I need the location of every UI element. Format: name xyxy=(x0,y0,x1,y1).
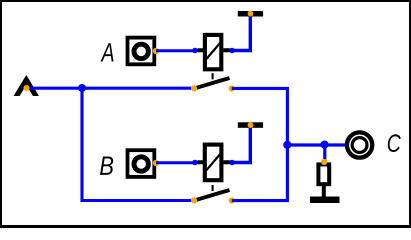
node: switch A left terminal xyxy=(191,85,197,91)
label C xyxy=(388,134,401,152)
wire: switch B to output node xyxy=(232,145,288,201)
supply bar A xyxy=(238,11,263,17)
node: orange terminal at input A xyxy=(153,48,159,54)
switch contact B blade xyxy=(194,190,230,201)
node: switch B right terminal xyxy=(229,197,235,203)
node: orange terminal at supply bar A xyxy=(248,11,254,17)
supply bar B xyxy=(238,122,263,128)
node: orange terminal at supply bar B xyxy=(248,122,254,128)
node: coil B right terminal xyxy=(229,160,235,166)
node: orange terminal at resistor top xyxy=(321,159,327,165)
wire: switch A to output node xyxy=(232,88,288,145)
node: switch B left terminal xyxy=(191,197,197,203)
node: orange terminal at input B xyxy=(153,160,159,166)
input A inner circle xyxy=(134,44,148,58)
lamp C inner ring xyxy=(352,138,367,153)
wire: input A to coil A xyxy=(156,49,195,52)
node: output junction xyxy=(283,141,291,149)
lamp C outer ring xyxy=(347,132,372,157)
node: coil A right terminal xyxy=(229,48,235,54)
relay coil A xyxy=(205,35,221,69)
wire: resistor lead to ground xyxy=(322,186,326,198)
label B xyxy=(100,156,113,174)
wire: left branch down to B row xyxy=(82,88,194,200)
label A xyxy=(101,43,114,61)
resistor R xyxy=(318,164,329,184)
wire: junction to resistor xyxy=(323,145,326,161)
node: switch A right terminal xyxy=(229,85,235,91)
input terminal chevron xyxy=(14,75,40,96)
input A box xyxy=(128,38,155,65)
wire: input B to coil B xyxy=(156,161,195,164)
relay coil B pin stubs xyxy=(198,160,230,164)
switch contact A blade xyxy=(194,78,230,89)
wire: coil A to supply bar xyxy=(232,16,250,51)
wire: coil B to supply bar xyxy=(232,128,250,163)
actuation link B (dashed) xyxy=(212,185,214,191)
input B inner circle xyxy=(134,157,148,171)
ground bar xyxy=(310,197,340,204)
input B box xyxy=(128,150,155,177)
node: orange terminal at chevron xyxy=(24,85,30,91)
relay coil A pin stubs xyxy=(198,48,230,52)
node: coil A left terminal xyxy=(192,48,198,54)
node: junction on input wire xyxy=(78,84,86,92)
relay coil B xyxy=(205,145,222,181)
wire: input to switch A row xyxy=(26,87,194,90)
node: resistor branch junction xyxy=(320,141,328,149)
actuation link A (dashed) xyxy=(212,73,214,79)
node: coil B left terminal xyxy=(192,160,198,166)
wire: output node to lamp C xyxy=(287,143,345,146)
